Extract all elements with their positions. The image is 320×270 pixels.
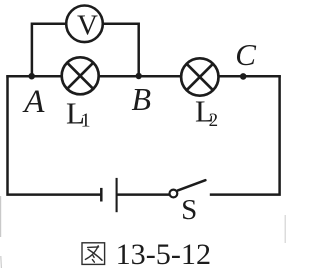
switch S blade xyxy=(178,180,206,190)
wire: voltmeter branch (A up, across top, down to B) xyxy=(32,24,139,76)
wire: bottom segment between battery and switch xyxy=(117,193,169,196)
scan artifact left bottom xyxy=(0,256,2,268)
svg-text:S: S xyxy=(181,194,197,226)
svg-text:2: 2 xyxy=(209,110,219,131)
scan artifact left edge xyxy=(0,196,2,237)
node C junction dot xyxy=(240,73,247,80)
voltmeter U1 circle xyxy=(66,6,103,43)
node B junction dot xyxy=(136,73,142,79)
caption character 图 (drawn) xyxy=(82,243,105,265)
wire: left side and bottom-left segment to battery xyxy=(8,75,102,194)
svg-text:B: B xyxy=(132,81,152,117)
node A junction dot xyxy=(28,73,35,80)
lamp L1 cross xyxy=(67,63,93,89)
svg-text:A: A xyxy=(22,84,45,120)
lamp L2 circle xyxy=(181,58,218,95)
svg-text:1: 1 xyxy=(81,110,91,132)
wire: main top wire A-B-C xyxy=(6,75,281,78)
switch S pivot circle xyxy=(170,190,178,198)
scan artifact right edge xyxy=(284,215,286,243)
battery negative plate (short) xyxy=(100,188,103,202)
svg-text:13-5-12: 13-5-12 xyxy=(116,238,212,270)
battery positive plate (long) xyxy=(116,178,118,212)
svg-text:C: C xyxy=(235,37,256,72)
wire: right side and bottom-right segment to switch xyxy=(210,75,280,194)
svg-text:V: V xyxy=(77,9,98,41)
lamp L2 cross xyxy=(187,64,213,90)
lamp L1 circle xyxy=(62,57,99,94)
